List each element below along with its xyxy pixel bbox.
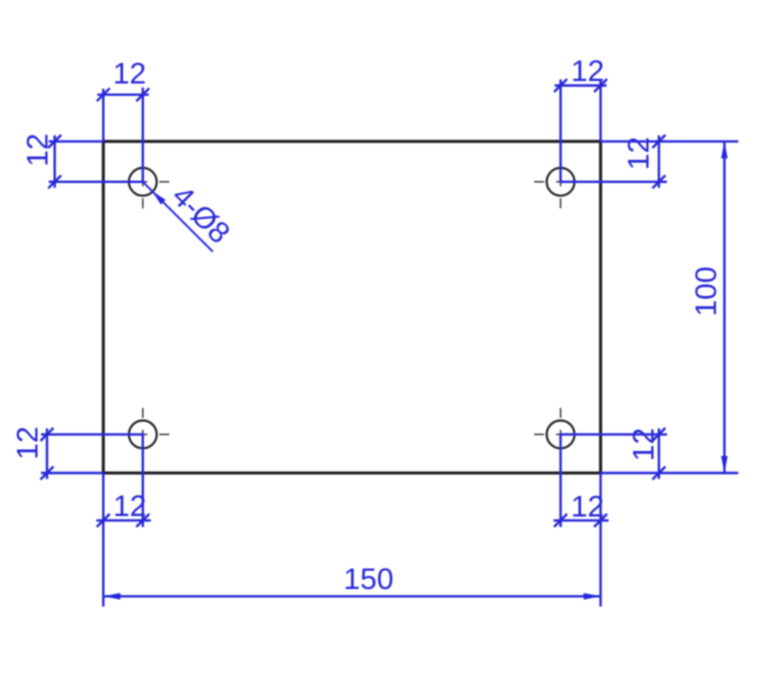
- svg-text:150: 150: [343, 563, 393, 596]
- arrow 150 left: [103, 593, 120, 600]
- text 12 right-bottom: [627, 428, 660, 461]
- dimension 12 top-left horizontal: [97, 88, 150, 182]
- text 12 right-top: [623, 137, 656, 170]
- dimension 12 left-bottom vertical: [41, 428, 143, 480]
- svg-text:12: 12: [11, 426, 44, 459]
- dimension 12 bottom-right horizontal: [554, 434, 609, 606]
- hole H2 top-right centerlines: [534, 155, 587, 208]
- svg-text:100: 100: [690, 266, 723, 316]
- svg-text:12: 12: [627, 428, 660, 461]
- arrow 100 top: [721, 141, 728, 158]
- svg-text:12: 12: [21, 133, 54, 166]
- hole H1 top-left centerlines: [116, 155, 169, 208]
- leader line 4-O8: [143, 182, 213, 252]
- hole H4 bottom-right circle: [547, 421, 575, 449]
- svg-text:12: 12: [571, 491, 604, 524]
- plate outline: [103, 141, 600, 473]
- svg-text:12: 12: [623, 137, 656, 170]
- svg-text:12: 12: [571, 55, 604, 88]
- leader arrow: [150, 189, 166, 205]
- svg-text:12: 12: [113, 58, 146, 91]
- hole H4 bottom-right centerlines: [534, 408, 587, 461]
- dimension 100 right: [723, 141, 725, 473]
- text 12 left-top: [21, 133, 54, 166]
- text 12 left-bottom: [11, 426, 44, 459]
- arrow 100 bottom: [721, 456, 728, 473]
- dimension 12 right-bottom vertical: [561, 428, 739, 480]
- dimension 12 left-top vertical: [48, 135, 143, 188]
- text 4-O8: [165, 180, 236, 251]
- hole H2 top-right circle: [547, 168, 575, 196]
- svg-text:12: 12: [113, 490, 146, 523]
- text 100: [690, 266, 723, 316]
- hole H3 bottom-left centerlines: [116, 408, 169, 461]
- arrow 150 right: [584, 593, 601, 600]
- hole H3 bottom-left circle: [129, 421, 157, 449]
- dimension 150 bottom: [103, 595, 600, 597]
- dimension 12 top-right horizontal: [554, 79, 607, 182]
- dimension 12 bottom-left horizontal: [96, 434, 151, 606]
- hole H1 top-left circle: [129, 168, 157, 196]
- dimension 12 right-top vertical: [561, 135, 739, 188]
